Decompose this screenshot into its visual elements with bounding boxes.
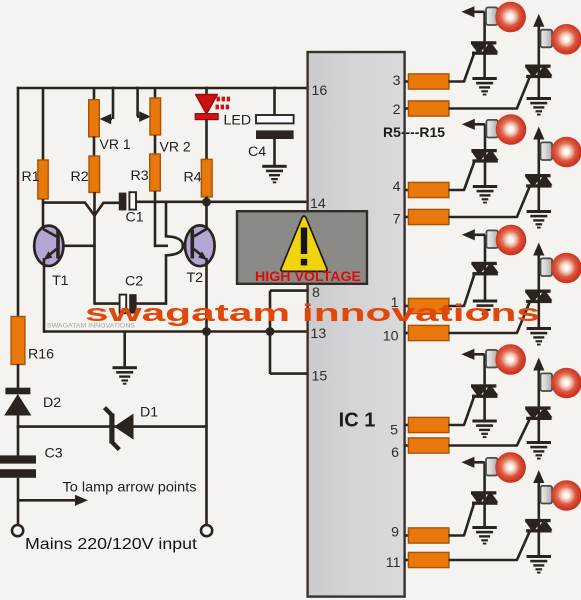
node R4 junction [202, 198, 211, 207]
svg-text:T2: T2 [187, 270, 204, 286]
svg-text:10: 10 [383, 329, 399, 345]
triac group3 right [525, 290, 552, 304]
transistor T2 [185, 225, 215, 286]
lamp bulb group5 left [495, 452, 526, 483]
arrow up group3 right [533, 243, 544, 256]
lamp base group1 left [486, 7, 498, 25]
resistor R1 [22, 160, 49, 199]
wire triac cathode group4 left [483, 397, 486, 420]
pin label 14 [310, 196, 326, 212]
diode D2 [4, 388, 61, 416]
ground group3 right [527, 327, 551, 346]
arrow lamp group4 left [461, 349, 484, 360]
wire VR1 top stub [93, 88, 96, 101]
resistor R group1 right pin [405, 101, 449, 116]
wire R3 to mid rail [154, 191, 157, 203]
svg-text:D1: D1 [140, 405, 158, 421]
wire D1 node to C3 [17, 427, 20, 456]
lamp bulb group4 right [551, 368, 581, 399]
pin label 10 [383, 329, 399, 345]
node rail pin13 [266, 327, 275, 336]
svg-text:R5----R15: R5----R15 [383, 124, 445, 140]
terminal mains right [201, 525, 212, 536]
wire triac cathode group1 right [537, 78, 540, 99]
ground group5 left [472, 526, 496, 545]
wiper arrow VR1 [100, 87, 113, 125]
wire T1 base node down to C2 left [95, 246, 121, 304]
svg-text:9: 9 [391, 525, 399, 541]
resistor R4 [184, 159, 213, 197]
svg-text:LED: LED [224, 113, 252, 129]
wire pin15 [270, 372, 308, 375]
transistor T1 [34, 226, 68, 289]
triac group1 right [525, 65, 552, 79]
wire triac cathode group1 left [483, 54, 486, 78]
capacitor C4 [248, 87, 294, 160]
wire gate group3 right [449, 303, 530, 334]
resistor R group2 right pin [405, 209, 449, 224]
ground group5 right [527, 555, 551, 574]
wire triac anode up group4 left [483, 354, 486, 384]
wire triac anode up group5 left [483, 462, 486, 491]
svg-text:VR 2: VR 2 [160, 139, 191, 155]
wire triac cathode group4 right [537, 419, 540, 442]
triac group5 left [471, 491, 498, 505]
wire VR2 to R3 [154, 135, 157, 155]
resistor R group4 left pin [405, 417, 449, 432]
svg-text:C1: C1 [126, 210, 144, 226]
wire triac anode up group4 right [537, 367, 540, 406]
resistor R16 [11, 317, 54, 365]
svg-text:7: 7 [393, 212, 401, 228]
svg-text:R2: R2 [71, 169, 89, 185]
lamp bulb group5 right [551, 480, 581, 511]
wire T1 collector to C1 with dip hop [43, 203, 120, 216]
pin label 6 [391, 445, 399, 461]
resistor R group2 left pin [405, 182, 449, 197]
wire gate group5 right [449, 532, 530, 560]
wire pin8 [270, 289, 308, 292]
arrow lamp group5 left [461, 457, 484, 468]
wire gate group1 right [449, 78, 530, 109]
svg-text:VR 1: VR 1 [100, 136, 131, 152]
wire VR2 top stub [154, 88, 157, 99]
arrow up group5 right [533, 470, 544, 483]
svg-text:C3: C3 [45, 446, 63, 462]
ground group4 right [527, 441, 551, 460]
resistor R group1 left pin [405, 74, 449, 89]
resistor R group3 right pin [405, 325, 449, 340]
wire T1 emitter down [43, 258, 46, 333]
svg-text:2: 2 [393, 102, 401, 118]
terminal mains left [12, 525, 23, 536]
wire triac anode up group1 left [483, 12, 486, 41]
lamp base group4 right [541, 373, 553, 391]
svg-text:4: 4 [393, 179, 401, 195]
wire gate group2 right [449, 187, 530, 217]
wire C4 to ground [273, 139, 276, 166]
arrow lamp group2 left [462, 119, 485, 130]
wire top supply rail [17, 87, 308, 90]
wire left mains rail upper [17, 87, 20, 317]
capacitor C1 [119, 192, 144, 225]
svg-text:Mains 220/120V input: Mains 220/120V input [25, 536, 198, 553]
lamp base group2 right [541, 142, 553, 160]
lamp bulb group3 right [551, 253, 581, 284]
wire R1 to T1 collector node [42, 199, 45, 231]
svg-text:swagatam innovations: swagatam innovations [85, 300, 540, 327]
label high voltage [255, 268, 361, 284]
svg-text:11: 11 [386, 555, 401, 571]
ground group2 right [527, 210, 551, 229]
wire gate group1 left [449, 54, 474, 81]
arrow lamp group3 left [462, 229, 485, 240]
label R5--R15 [383, 124, 445, 140]
resistor R3 [131, 154, 161, 191]
lamp bulb group2 right [551, 137, 581, 168]
resistor R group5 left pin [405, 528, 449, 543]
arrow up group4 right [533, 358, 544, 371]
arrow to lamp points [17, 480, 197, 506]
lamp base group4 left [486, 350, 498, 368]
wire triac anode up group2 right [537, 136, 540, 174]
wire triac cathode group5 right [537, 532, 540, 556]
lamp base group5 left [486, 458, 498, 476]
svg-text:R1: R1 [22, 169, 40, 185]
triac group4 right [525, 406, 552, 420]
pin label 13 [311, 326, 327, 342]
diode D1 zener [105, 405, 159, 450]
pin label 15 [312, 369, 328, 385]
lamp base group1 right [541, 30, 553, 48]
triac group3 left [471, 262, 498, 276]
wire D1 horizontal [17, 425, 208, 428]
triac group1 left [471, 41, 498, 55]
wire D1 to right terminal [205, 427, 208, 526]
triac group4 left [471, 384, 498, 398]
IC1 body [308, 52, 405, 597]
wire T2 collector [205, 202, 208, 230]
arrow lamp group1 left [461, 6, 484, 17]
wire R1 top [42, 88, 45, 161]
pin label 7 [393, 212, 401, 228]
wire triac anode up group3 left [484, 235, 487, 262]
ground group2 left [473, 185, 497, 204]
resistor R group4 right pin [405, 438, 449, 453]
high voltage box [237, 211, 367, 284]
wire LED to R4 [205, 119, 208, 160]
lamp bulb group1 right [551, 24, 581, 55]
svg-text:R3: R3 [131, 168, 149, 184]
lamp base group5 right [541, 486, 553, 504]
lamp bulb group2 left [496, 114, 527, 145]
wire triac cathode group3 left [484, 275, 487, 301]
pin label 8 [312, 285, 320, 301]
lamp base group3 left [486, 230, 498, 248]
wire VR1 to R2 [93, 137, 96, 157]
potentiometer VR1 [89, 100, 131, 152]
wire T1 base horizontal [62, 245, 96, 248]
wire pin8 to rail to pin15 [269, 291, 272, 374]
pin label 16 [312, 83, 328, 99]
wire C3 down to mains terminal [17, 478, 20, 525]
resistor R group5 right pin [405, 552, 449, 567]
label mains input [25, 536, 198, 553]
pin label 3 [393, 73, 401, 89]
wire triac anode up group1 right [537, 23, 540, 64]
ground under C4 [262, 165, 286, 183]
wire triac cathode group2 right [537, 187, 540, 211]
arrow up group1 right [533, 14, 544, 27]
ground group4 left [472, 420, 496, 439]
pin label 2 [393, 102, 401, 118]
label IC 1 [339, 410, 376, 432]
svg-text:IC 1: IC 1 [339, 410, 376, 432]
wire gate group2 left [449, 162, 475, 190]
wire C2 ground stub [123, 332, 126, 368]
capacitor C3 [0, 446, 63, 478]
svg-text:R16: R16 [28, 347, 54, 363]
triac group5 right [525, 519, 552, 533]
lamp bulb group3 left [496, 225, 527, 256]
wire mid rail C1 to IC pin14 [136, 201, 308, 204]
wire triac anode up group5 right [537, 480, 540, 519]
lamp base group2 left [486, 120, 498, 138]
wire VR2 wiper [137, 87, 151, 122]
arrow up group2 right [533, 127, 544, 140]
svg-text:T1: T1 [52, 273, 69, 289]
svg-text:To lamp arrow points: To lamp arrow points [63, 480, 197, 495]
potentiometer VR2 [150, 98, 191, 155]
svg-text:C4: C4 [248, 144, 266, 160]
wire triac cathode group2 left [484, 162, 487, 186]
svg-text:C2: C2 [125, 274, 143, 290]
svg-text:14: 14 [310, 196, 326, 212]
svg-text:5: 5 [390, 423, 398, 439]
wire gate group4 left [449, 397, 474, 425]
capacitor C2 [120, 274, 144, 314]
wire gate group3 left [449, 275, 475, 306]
node T2 emitter rail [202, 327, 211, 336]
wire branch to C2 right with hop [137, 202, 184, 304]
watermark swagatam innovations [85, 300, 540, 327]
wire gate group4 right [449, 419, 530, 445]
ground group3 left [473, 300, 497, 319]
wire triac cathode group5 left [483, 504, 486, 527]
wire R4 to node [205, 197, 208, 203]
ground group1 right [527, 97, 551, 116]
svg-text:D2: D2 [43, 395, 61, 411]
wire dip to T1 base [93, 215, 96, 247]
warning triangle [281, 216, 327, 271]
wire triac cathode group3 right [537, 303, 540, 329]
svg-text:6: 6 [391, 445, 399, 461]
svg-text:R4: R4 [184, 170, 202, 186]
wire triac anode up group2 left [484, 124, 487, 149]
triac group2 right [525, 174, 552, 188]
lamp bulb group1 left [495, 2, 526, 33]
svg-text:3: 3 [393, 73, 401, 89]
lamp bulb group4 left [495, 344, 526, 375]
wire triac anode up group3 right [537, 252, 540, 290]
svg-text:HIGH VOLTAGE: HIGH VOLTAGE [255, 268, 361, 284]
pin label 4 [393, 179, 401, 195]
pin label 1 [391, 295, 399, 311]
wire R16 to D2 [17, 364, 20, 389]
resistor R2 [71, 156, 100, 193]
wire T2 emitter down [205, 258, 208, 332]
wire gate group5 left [449, 504, 474, 535]
pin label 9 [391, 525, 399, 541]
svg-text:15: 15 [312, 369, 328, 385]
wire bottom rail [44, 330, 308, 333]
wire T2 down to D1 node [205, 332, 208, 428]
small watermark [47, 323, 136, 330]
svg-text:13: 13 [311, 326, 327, 342]
pin label 5 [390, 423, 398, 439]
pin label 11 [386, 555, 401, 571]
led LED [195, 87, 251, 129]
lamp base group3 right [541, 258, 553, 276]
wire T2 base [154, 202, 187, 247]
resistor R group3 left pin [405, 298, 449, 313]
ground under C2 [113, 366, 137, 384]
svg-text:8: 8 [312, 285, 320, 301]
wire D2 to D1 node [17, 415, 20, 428]
wire R2 to dip bottom [93, 192, 96, 216]
triac group2 left [471, 149, 498, 163]
ground group1 left [472, 77, 496, 96]
svg-text:16: 16 [312, 83, 328, 99]
